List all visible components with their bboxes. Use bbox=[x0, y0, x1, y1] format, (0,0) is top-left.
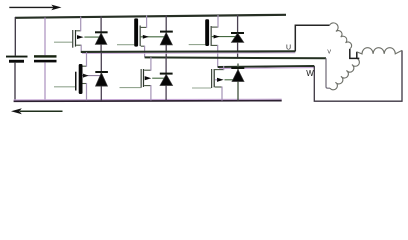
diode D4 cathode bar bbox=[95, 71, 108, 73]
gate wire Q4 bbox=[54, 86, 75, 88]
drain stub Q4 bbox=[83, 65, 87, 67]
gate wire Q1 bbox=[54, 41, 72, 43]
diode D4 triangle bbox=[96, 73, 108, 86]
source stub Q4 bbox=[83, 83, 87, 85]
diode D6 triangle bbox=[232, 70, 244, 82]
diode D1 triangle bbox=[95, 33, 107, 44]
svg-text:U: U bbox=[286, 45, 291, 52]
source stub Q6 bbox=[215, 86, 222, 88]
channel bar Q6 bbox=[214, 69, 215, 87]
stator winding V (coil) bbox=[330, 59, 359, 90]
channel bar Q1 bbox=[75, 30, 76, 47]
top current-direction arrow bbox=[9, 5, 61, 11]
diode D3 vertical bbox=[237, 15, 239, 57]
diode D5 triangle bbox=[160, 74, 173, 85]
diode D3 triangle bbox=[231, 33, 243, 42]
gate wire Q3 bbox=[189, 44, 206, 46]
drain stub Q3 bbox=[212, 26, 218, 28]
left rail wire bbox=[14, 17, 16, 56]
svg-text:V: V bbox=[327, 49, 331, 55]
thick bar Q4 bbox=[79, 64, 83, 94]
drain stub Q2 bbox=[141, 26, 147, 28]
diode D4 vertical bbox=[100, 52, 102, 100]
source stub Q5 bbox=[144, 85, 151, 87]
gate wire Q5 bbox=[120, 87, 141, 89]
body arrow Q1 bbox=[77, 35, 84, 39]
W return wire bbox=[314, 50, 402, 101]
diode D3 cathode bar bbox=[231, 32, 244, 34]
star point junction bbox=[350, 49, 360, 59]
diode D6 cathode bar bbox=[231, 67, 244, 69]
capacitor C1 wire top bbox=[44, 18, 46, 56]
diode D2 cathode bar bbox=[160, 31, 173, 33]
gate bar Q1 bbox=[72, 30, 73, 48]
diode D5 vertical bbox=[165, 57, 167, 101]
diode D6 vertical bbox=[237, 64, 239, 101]
svg-text:W: W bbox=[306, 69, 314, 78]
wire arrow to diode D6 bbox=[225, 79, 238, 81]
thick bar Q2 bbox=[134, 18, 138, 46]
body arrow Q4 bbox=[83, 74, 89, 78]
stator winding W (coil) bbox=[357, 48, 402, 54]
channel bar Q5 bbox=[143, 69, 144, 87]
source stub Q2 bbox=[141, 45, 145, 47]
wire arrow to diode D1 bbox=[84, 36, 101, 38]
thick bar Q3 bbox=[205, 19, 209, 46]
capacitor C1 bbox=[34, 55, 57, 100]
bottom DC- rail bbox=[14, 98, 282, 101]
body arrow Q2 bbox=[143, 35, 149, 39]
source stub Q1 bbox=[76, 44, 81, 46]
gate bar Q5 bbox=[141, 69, 142, 88]
gate wire Q6 bbox=[192, 87, 211, 89]
body arrow Q5 bbox=[145, 76, 152, 80]
stator winding U (coil) bbox=[330, 23, 352, 49]
V drop wire bbox=[326, 58, 330, 88]
diode D1 vertical bbox=[100, 16, 102, 51]
drain stub Q5 bbox=[144, 69, 151, 71]
drain stub Q1 bbox=[76, 30, 81, 32]
diode D5 cathode bar bbox=[160, 73, 173, 75]
bottom return arrow bbox=[11, 108, 63, 114]
gate wire Q2 bbox=[117, 44, 134, 46]
body stub Q2 bbox=[141, 36, 166, 38]
body arrow Q6 bbox=[217, 78, 224, 82]
wire arrow to diode D5 bbox=[152, 77, 166, 79]
top DC+ rail bbox=[15, 15, 286, 18]
body stub Q6 bbox=[215, 79, 217, 81]
body wire Q4 to diode D4 bbox=[83, 75, 102, 77]
body stub Q3 bbox=[212, 36, 238, 38]
diode D2 triangle bbox=[160, 33, 172, 45]
gate bar Q6 bbox=[211, 69, 212, 88]
battery B1 bbox=[6, 56, 28, 100]
gate bar Q4 bbox=[75, 72, 77, 91]
body arrow Q3 bbox=[214, 35, 220, 39]
U riser wire bbox=[295, 25, 329, 51]
diode D2 vertical bbox=[165, 15, 167, 57]
drain stub Q6 bbox=[215, 69, 224, 71]
diode D1 cathode bar bbox=[95, 31, 108, 33]
source stub Q3 bbox=[212, 44, 218, 46]
